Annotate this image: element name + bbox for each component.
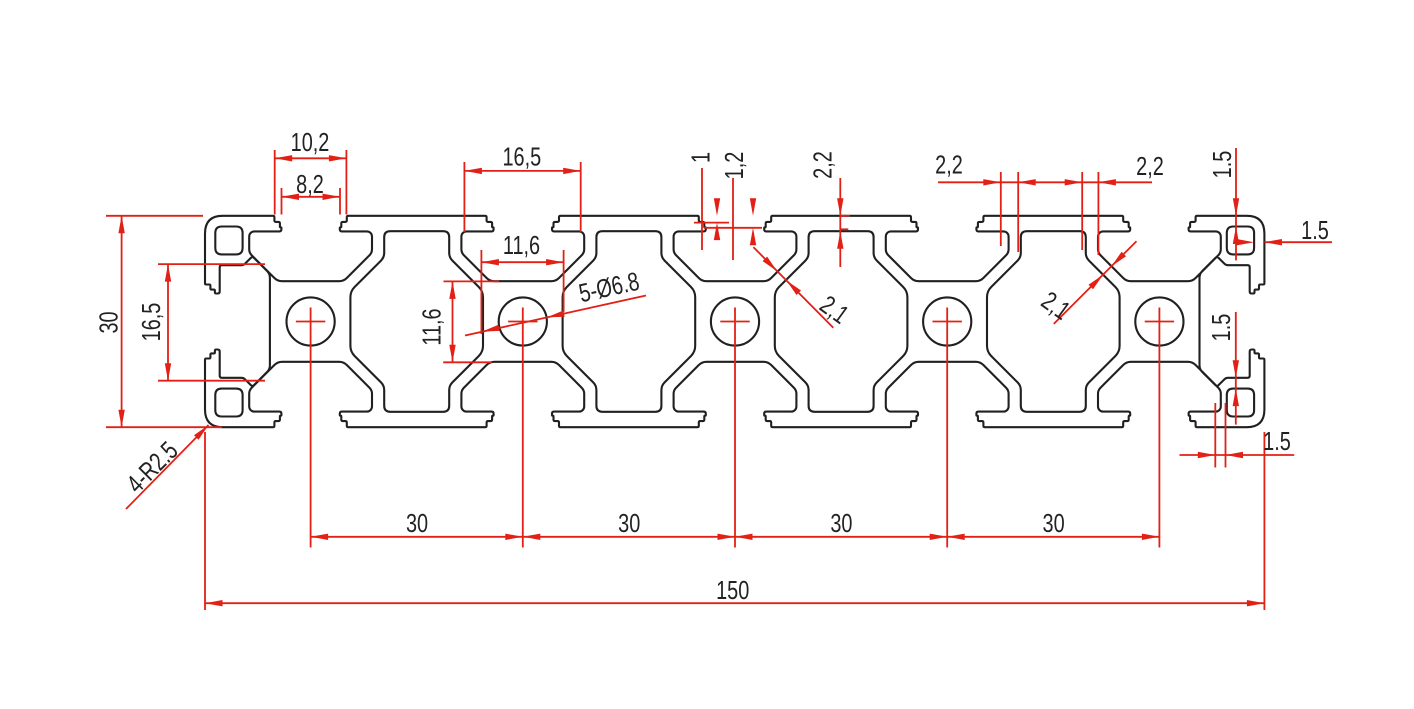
svg-text:1: 1: [686, 152, 715, 163]
svg-text:30: 30: [406, 509, 428, 538]
svg-text:30: 30: [1043, 509, 1065, 538]
svg-text:10,2: 10,2: [291, 127, 330, 156]
svg-text:30: 30: [618, 509, 640, 538]
svg-text:30: 30: [94, 311, 123, 333]
svg-text:11,6: 11,6: [503, 230, 540, 259]
svg-text:16,5: 16,5: [502, 142, 541, 171]
svg-text:1.5: 1.5: [1207, 151, 1236, 179]
svg-text:2,2: 2,2: [808, 151, 837, 179]
svg-text:150: 150: [716, 575, 749, 604]
svg-text:1.5: 1.5: [1263, 426, 1291, 455]
svg-text:16,5: 16,5: [136, 303, 165, 342]
svg-text:1.5: 1.5: [1206, 314, 1235, 342]
svg-text:2,2: 2,2: [1136, 151, 1164, 180]
svg-text:2,2: 2,2: [935, 150, 963, 179]
svg-text:8,2: 8,2: [296, 169, 324, 198]
svg-text:1.5: 1.5: [1301, 215, 1329, 244]
svg-text:30: 30: [830, 509, 852, 538]
svg-text:1,2: 1,2: [719, 152, 748, 180]
svg-text:11,6: 11,6: [417, 308, 446, 345]
